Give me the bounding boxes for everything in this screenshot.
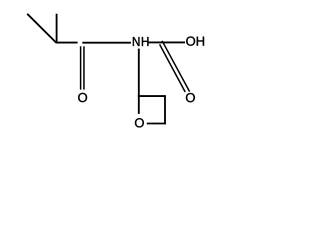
atom O amide carbonyl oxygen (78, 93, 87, 102)
double bond C=O carboxyl (160, 41, 190, 92)
bond NH-C carboxyl and C-OH (148, 41, 185, 43)
oxetane ring top edge (138, 95, 165, 97)
oxetane ring right edge (164, 95, 166, 124)
atom H of NH amide (142, 37, 149, 46)
atom H of OH hydroxyl (197, 37, 204, 46)
double bond C=O amide carbonyl (81, 46, 84, 89)
atom O oxetane ring oxygen (135, 118, 144, 127)
atom O carboxyl oxygen (186, 93, 195, 102)
bond CH-C carbonyl (56, 42, 78, 44)
oxetane ring left edge (138, 96, 140, 114)
bond CH3 diagonal methyl (27, 14, 56, 43)
bond C carbonyl-NH (82, 42, 131, 44)
oxetane ring bottom edge (147, 123, 166, 125)
bond CH3 vertical methyl (56, 14, 58, 43)
bond NH-oxetane C2 (138, 49, 140, 97)
atom O of OH hydroxyl (186, 37, 195, 46)
atom N of NH amide (133, 37, 140, 46)
